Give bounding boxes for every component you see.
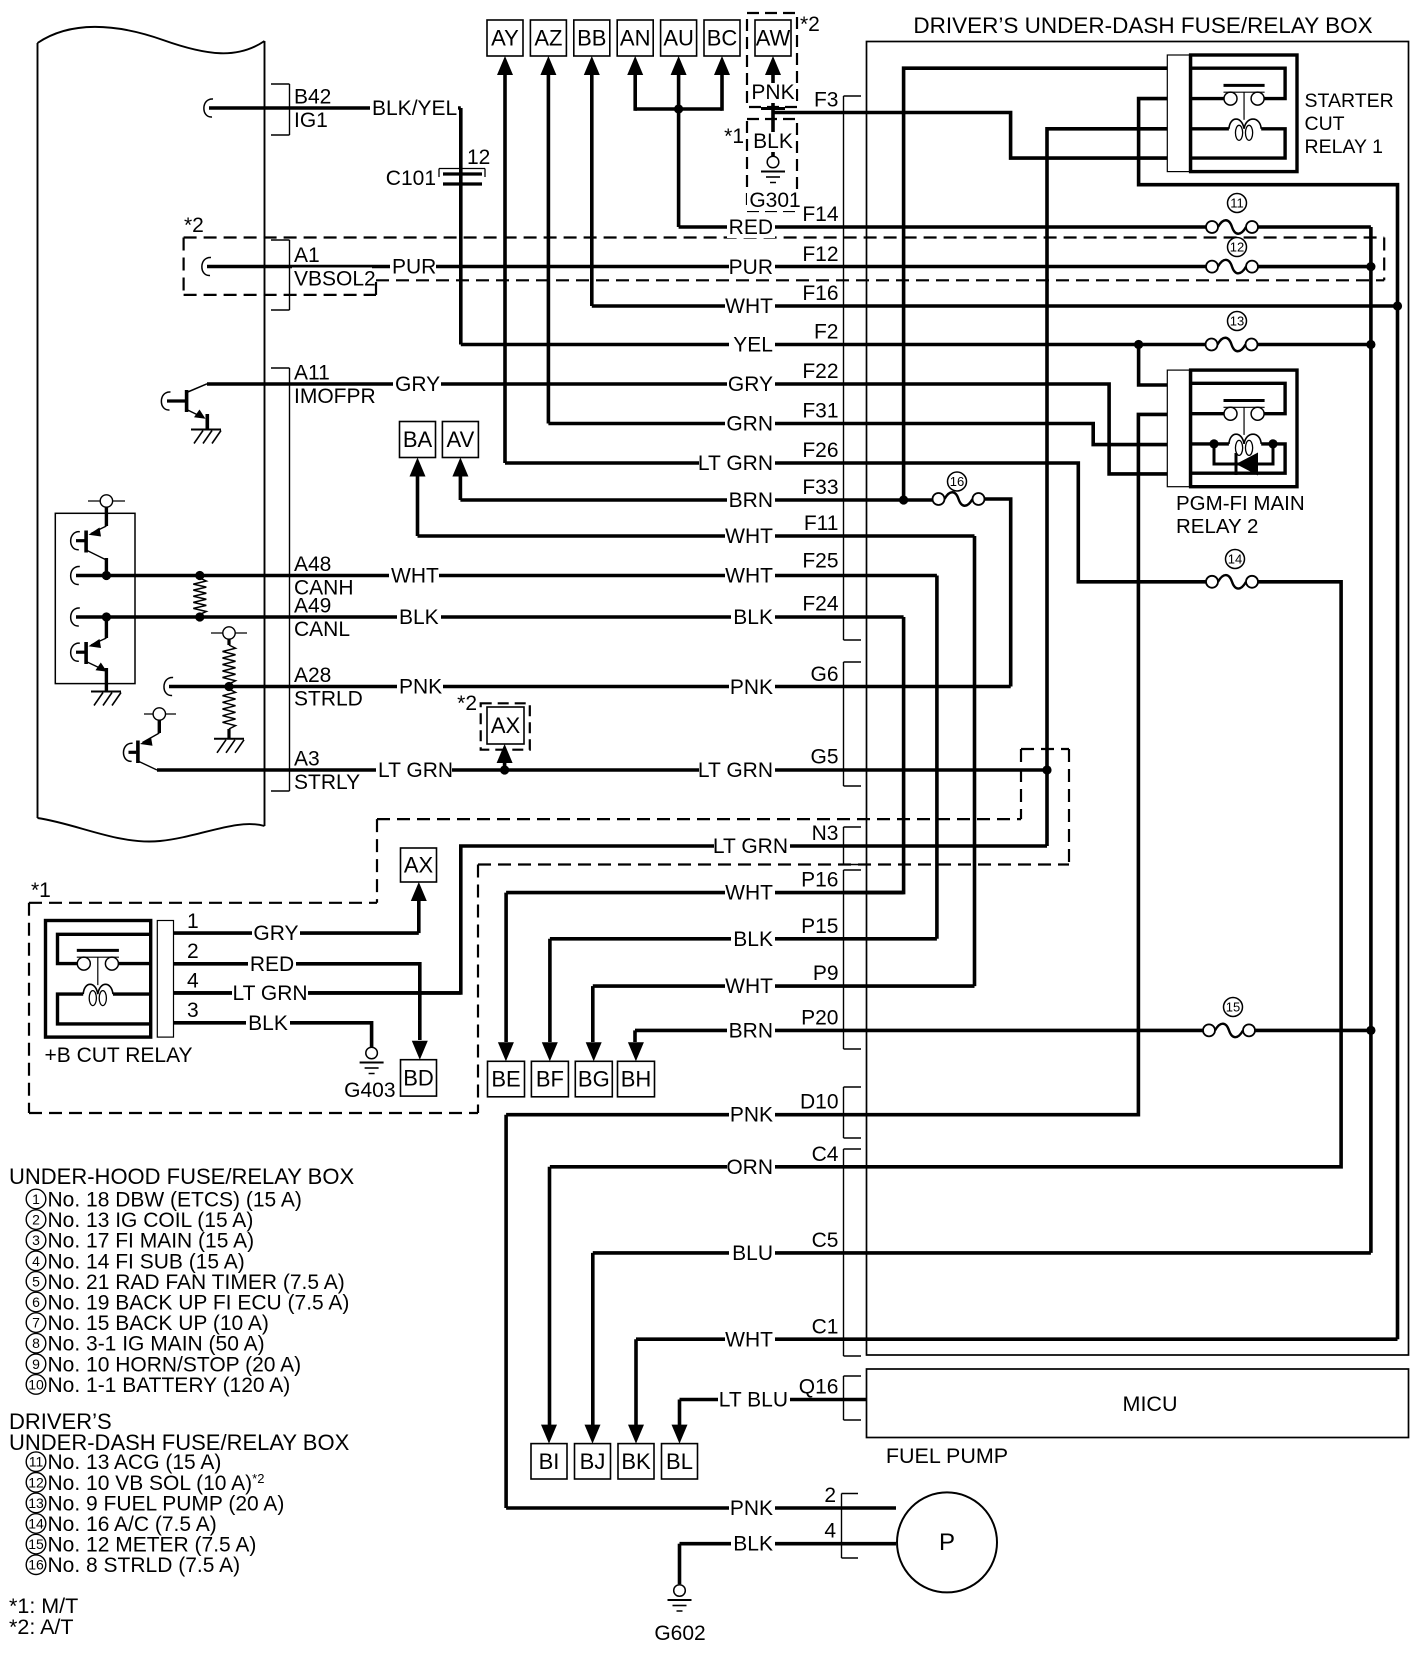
node STRLD-resistors — [224, 682, 233, 691]
svg-text:UNDER-HOOD FUSE/RELAY BOX: UNDER-HOOD FUSE/RELAY BOX — [9, 1164, 354, 1189]
svg-text:AZ: AZ — [534, 26, 562, 51]
connector AY — [487, 20, 523, 56]
fuel pump motor — [897, 1492, 997, 1592]
svg-text:VBSOL2: VBSOL2 — [294, 268, 376, 291]
connector BF — [531, 1061, 568, 1097]
svg-text:A28: A28 — [294, 664, 331, 687]
svg-text:No. 18 DBW (ETCS) (15 A): No. 18 DBW (ETCS) (15 A) — [48, 1189, 302, 1212]
bracket F connector — [844, 96, 862, 640]
svg-text:D10: D10 — [800, 1091, 839, 1114]
svg-text:CANL: CANL — [294, 618, 350, 641]
node fuse13-bus — [1366, 340, 1375, 349]
svg-text:PNK: PNK — [751, 81, 794, 104]
connector AZ — [530, 20, 566, 56]
svg-text:MICU: MICU — [1123, 1392, 1178, 1416]
svg-text:*2: A/T: *2: A/T — [9, 1615, 74, 1639]
wire BLK +B — [174, 1023, 372, 1047]
wire AY stem to F26 — [503, 75, 507, 463]
legend item 13 — [26, 1492, 284, 1515]
wire fuse15 out — [1255, 1029, 1371, 1033]
wire relay2 out to D10 PNK — [506, 414, 1191, 1114]
CAN transistor Q lower — [71, 617, 107, 691]
svg-text:AU: AU — [663, 26, 694, 51]
arrow into BE — [498, 1042, 514, 1061]
wire P9 WHT to BG — [593, 984, 975, 988]
node CANL-resistor — [195, 612, 204, 621]
svg-text:No. 10 VB SOL (10 A)*2: No. 10 VB SOL (10 A)*2 — [48, 1471, 265, 1495]
svg-text:GRN: GRN — [726, 413, 773, 436]
svg-text:16: 16 — [950, 474, 964, 489]
svg-text:11: 11 — [29, 1454, 44, 1470]
dashed *2 region around A1/VBSOL2 extending right — [184, 236, 1385, 238]
svg-text:12: 12 — [1230, 240, 1244, 255]
svg-text:3: 3 — [187, 999, 199, 1022]
svg-text:No. 16 A/C (7.5 A): No. 16 A/C (7.5 A) — [48, 1513, 217, 1536]
relay PGM-FI MAIN RELAY 2 — [1167, 370, 1297, 487]
legend item 12 — [26, 1471, 264, 1495]
svg-text:F31: F31 — [802, 400, 838, 423]
svg-text:GRY: GRY — [728, 373, 773, 396]
svg-text:No. 1-1 BATTERY (120 A): No. 1-1 BATTERY (120 A) — [48, 1374, 291, 1397]
connector BK — [618, 1444, 654, 1479]
svg-text:F33: F33 — [802, 476, 838, 499]
arrow into AX2 — [497, 744, 513, 763]
svg-text:15: 15 — [1226, 1000, 1240, 1015]
svg-text:RED: RED — [250, 953, 294, 976]
CAN transistor Q upper — [71, 526, 107, 576]
wire G5 to relay1 coil — [1047, 129, 1191, 846]
bracket fuel pump — [842, 1494, 859, 1559]
svg-text:7: 7 — [32, 1315, 40, 1331]
fuse 16 — [933, 472, 985, 506]
svg-text:F14: F14 — [802, 203, 839, 226]
svg-text:A3: A3 — [294, 748, 320, 771]
svg-text:BLK: BLK — [399, 606, 439, 629]
wire C101 vertical — [459, 108, 463, 345]
svg-text:11: 11 — [1230, 196, 1244, 211]
svg-text:No. 19 BACK UP FI ECU (7.5 A): No. 19 BACK UP FI ECU (7.5 A) — [48, 1292, 350, 1315]
svg-text:No. 10 HORN/STOP (20 A): No. 10 HORN/STOP (20 A) — [48, 1353, 302, 1376]
connector BG — [575, 1061, 612, 1097]
wire PNK to fuel pump pin 2 — [506, 1506, 896, 1510]
svg-text:13: 13 — [1230, 314, 1244, 329]
wire bridge F25-P15 — [935, 576, 939, 939]
svg-text:5: 5 — [32, 1273, 40, 1289]
svg-text:No. 14 FI SUB (15 A): No. 14 FI SUB (15 A) — [48, 1250, 245, 1273]
wire AV stem — [459, 476, 463, 500]
wire starter relay T1 feed from F33 — [904, 68, 1191, 500]
svg-text:RELAY 1: RELAY 1 — [1305, 136, 1383, 158]
svg-text:F2: F2 — [814, 321, 839, 344]
svg-text:LT GRN: LT GRN — [378, 759, 453, 782]
svg-text:2: 2 — [187, 940, 199, 963]
wire +B pin4 LT GRN (joins N3 riser) — [174, 991, 461, 995]
wire A49 CANL BLK to F24 — [71, 608, 80, 626]
svg-text:4: 4 — [187, 970, 199, 993]
node AN/AU/BC — [674, 104, 683, 113]
STRLY driver transistor — [144, 708, 176, 733]
arrow into AN — [627, 56, 643, 75]
arrow into AW — [765, 56, 781, 75]
wire AX2 stem — [503, 760, 507, 770]
svg-text:STRLD: STRLD — [294, 688, 363, 711]
wire bridge F24-P16 — [867, 617, 904, 893]
svg-text:STARTER: STARTER — [1305, 90, 1394, 112]
legend item 8 — [26, 1333, 264, 1356]
node CANH-resistor — [195, 571, 204, 580]
dashed box around AX (*2) near G5 — [481, 703, 530, 749]
svg-text:P16: P16 — [801, 869, 838, 892]
svg-text:BK: BK — [621, 1449, 651, 1474]
legend item 14 — [26, 1513, 217, 1536]
arrow into BA — [410, 458, 426, 477]
connector AU — [661, 20, 697, 56]
svg-text:G602: G602 — [654, 1622, 705, 1645]
wire BI stem — [548, 1167, 552, 1425]
svg-text:F22: F22 — [802, 360, 838, 383]
svg-text:IMOFPR: IMOFPR — [294, 385, 376, 408]
wire BH stem — [633, 1030, 637, 1042]
wire AX1 stem — [417, 901, 421, 933]
wire F33 BRN from AV to fuse 16 — [460, 498, 933, 502]
wire relay1 output WHT — [1139, 99, 1398, 1340]
dashed box around G5 junction — [1021, 748, 1069, 750]
svg-text:10: 10 — [28, 1376, 44, 1392]
svg-text:LT GRN: LT GRN — [232, 982, 307, 1005]
connector BI — [531, 1444, 567, 1479]
wire BL stem — [678, 1400, 682, 1426]
svg-text:C5: C5 — [812, 1229, 839, 1252]
svg-text:GRY: GRY — [395, 373, 440, 396]
svg-text:No. 12 METER (7.5 A): No. 12 METER (7.5 A) — [48, 1534, 257, 1557]
dashed region around N3 (*2) — [377, 818, 1021, 820]
svg-text:*1: *1 — [31, 879, 51, 902]
wire fuse12 out — [1258, 265, 1371, 269]
ground G403 — [360, 1047, 384, 1073]
legend item 9 — [26, 1353, 301, 1376]
svg-text:A48: A48 — [294, 553, 331, 576]
legend item 10 — [26, 1374, 290, 1397]
svg-text:*2: *2 — [800, 13, 820, 36]
wire GRY F22 — [207, 384, 1191, 474]
wire BC stem — [720, 75, 724, 111]
svg-text:LT GRN: LT GRN — [698, 452, 773, 475]
svg-text:BLK: BLK — [733, 606, 773, 629]
connector BD — [401, 1060, 437, 1096]
svg-text:AX: AX — [404, 853, 434, 878]
wire BF stem — [548, 939, 552, 1042]
ground (CAN box) — [91, 692, 121, 706]
M/T-A/T alternative junction bar — [761, 107, 785, 110]
wire BK stem — [634, 1339, 638, 1425]
supply circle above CAN box — [88, 495, 125, 526]
wire fuse13 out — [1258, 343, 1371, 347]
legend item 7 — [26, 1312, 269, 1335]
wire F11 WHT from BA — [418, 534, 975, 538]
node G5-AX — [500, 765, 509, 774]
svg-text:F3: F3 — [814, 89, 839, 112]
svg-text:BG: BG — [578, 1067, 610, 1092]
svg-text:WHT: WHT — [725, 882, 773, 905]
dashed box *1 around +B CUT RELAY — [29, 902, 377, 904]
ECM pin bracket A1 — [271, 240, 290, 310]
svg-text:16: 16 — [28, 1557, 44, 1573]
connector AV — [442, 422, 478, 458]
svg-text:DRIVER’S UNDER-DASH FUSE/RELAY: DRIVER’S UNDER-DASH FUSE/RELAY BOX — [913, 13, 1372, 38]
wire F16 WHT from BB — [592, 304, 1398, 308]
wire fuse16 to G6 — [979, 499, 1011, 687]
fuse 15 — [1203, 998, 1255, 1038]
ground G602 — [668, 1585, 692, 1611]
svg-text:AY: AY — [491, 26, 519, 51]
svg-text:LT BLU: LT BLU — [719, 1389, 788, 1412]
wire B42 IG1 BLK/YEL — [204, 99, 213, 117]
arrow into BG — [586, 1042, 602, 1061]
svg-text:PNK: PNK — [730, 1104, 773, 1127]
svg-text:F24: F24 — [802, 593, 839, 616]
wire Q16 LT BLU to BL — [680, 1398, 867, 1402]
connector BE — [488, 1061, 525, 1097]
svg-text:8: 8 — [32, 1335, 40, 1351]
svg-text:C4: C4 — [812, 1143, 839, 1166]
svg-text:G403: G403 — [344, 1079, 395, 1102]
ECM pin strip A11..A3 — [271, 368, 290, 791]
svg-text:C101: C101 — [386, 167, 436, 190]
arrow into AV — [452, 458, 468, 477]
ground (STRLD resistor) — [214, 739, 244, 753]
svg-text:GRY: GRY — [253, 922, 298, 945]
wire fuse13 to PGM-FI relay T1 — [1139, 345, 1191, 386]
legend item 2 — [26, 1209, 253, 1232]
svg-text:F11: F11 — [804, 512, 839, 535]
ground (IMOFPR emitter) — [191, 430, 221, 444]
wire fuse11 out — [1258, 225, 1371, 229]
wire GRN F31 — [548, 424, 1190, 445]
svg-text:WHT: WHT — [391, 565, 439, 588]
svg-text:AV: AV — [447, 427, 475, 452]
wire right bus (fuses 11/12/13/15 to C5) — [1369, 227, 1373, 1253]
wire A3 STRLY LT GRN to G5 — [157, 768, 1047, 772]
svg-text:BC: BC — [707, 26, 738, 51]
svg-text:A11: A11 — [294, 362, 330, 385]
svg-text:RED: RED — [729, 216, 773, 239]
svg-text:LT GRN: LT GRN — [713, 835, 788, 858]
wire F14 RED to fuse 11 — [679, 225, 1206, 229]
ECM/PCM torn-edge outline — [38, 27, 265, 53]
svg-text:WHT: WHT — [725, 1329, 773, 1352]
svg-text:6: 6 — [32, 1294, 40, 1310]
svg-text:2: 2 — [824, 1484, 836, 1507]
legend item 5 — [26, 1271, 345, 1294]
wire D10 to pump vertical — [504, 1115, 508, 1508]
svg-text:*1: *1 — [724, 125, 744, 148]
svg-text:P20: P20 — [801, 1007, 838, 1030]
svg-text:*2: *2 — [184, 214, 204, 237]
node F16-bus — [1393, 301, 1402, 310]
wire AU stem to F14 RED — [677, 75, 681, 227]
svg-text:A49: A49 — [294, 595, 331, 618]
MICU box — [867, 1369, 1409, 1438]
svg-text:PUR: PUR — [729, 256, 773, 279]
connector BB — [574, 20, 610, 56]
node G5-relaycoil — [1042, 765, 1051, 774]
svg-text:AW: AW — [756, 26, 791, 51]
svg-text:STRLY: STRLY — [294, 771, 360, 794]
svg-text:PNK: PNK — [730, 1497, 773, 1520]
svg-text:F26: F26 — [802, 439, 838, 462]
svg-text:LT GRN: LT GRN — [698, 759, 773, 782]
svg-text:15: 15 — [28, 1536, 44, 1552]
legend item 4 — [26, 1250, 245, 1273]
connector AX *1 — [401, 848, 437, 882]
dashed box around BLK/G301 (*1) — [747, 119, 797, 211]
svg-text:BD: BD — [403, 1065, 434, 1090]
wire +B pin1 GRY to AX — [174, 931, 419, 935]
wire P15 BLK to BF — [550, 937, 937, 941]
wire C5 BLU to BJ — [593, 1251, 1371, 1255]
svg-text:P9: P9 — [813, 962, 839, 985]
ground G301 — [761, 156, 785, 182]
svg-text:G5: G5 — [810, 746, 838, 769]
svg-text:No. 21 RAD FAN TIMER (7.5 A): No. 21 RAD FAN TIMER (7.5 A) — [48, 1271, 345, 1294]
legend item 15 — [26, 1534, 256, 1557]
wire P20 BRN to BH and fuse 15 — [635, 1029, 1203, 1033]
wire A48 CANH WHT to F25 — [71, 566, 80, 584]
svg-text:PNK: PNK — [730, 676, 773, 699]
STRLD pull-down resistor to ground — [223, 689, 236, 729]
arrow into BL — [672, 1425, 688, 1444]
wire F2 YEL from C101 to fuse 13 — [461, 343, 1206, 347]
arrow into BC — [714, 56, 730, 75]
bracket Q connector — [844, 1376, 862, 1420]
wire LT GRN F26 — [505, 463, 1206, 582]
legend item 6 — [26, 1292, 349, 1315]
node F2-relay2 — [1134, 340, 1143, 349]
svg-text:WHT: WHT — [725, 525, 773, 548]
svg-text:WHT: WHT — [725, 295, 773, 318]
svg-text:P: P — [939, 1529, 955, 1556]
node CANL-transistor — [102, 612, 111, 621]
svg-text:FUEL PUMP: FUEL PUMP — [886, 1444, 1008, 1468]
svg-text:BLK: BLK — [248, 1012, 288, 1035]
svg-text:Q16: Q16 — [799, 1376, 839, 1399]
wire C1 WHT to BK — [636, 1337, 1398, 1341]
svg-text:No. 3-1 IG MAIN (50 A): No. 3-1 IG MAIN (50 A) — [48, 1333, 265, 1356]
node fuse12-bus — [1366, 262, 1375, 271]
svg-text:9: 9 — [32, 1356, 40, 1372]
svg-text:N3: N3 — [812, 822, 839, 845]
wire AN-AU-BC bus — [635, 107, 722, 111]
svg-text:C1: C1 — [812, 1316, 839, 1339]
bracket N connector — [844, 827, 862, 865]
svg-text:+B CUT RELAY: +B CUT RELAY — [45, 1044, 193, 1067]
wire BE stem — [504, 893, 508, 1042]
arrow into AX1 — [411, 882, 427, 901]
wire AN stem — [633, 75, 637, 111]
arrow into AU — [671, 56, 687, 75]
wire F3 PNK — [773, 113, 1191, 159]
svg-text:IG1: IG1 — [294, 109, 328, 132]
transistor IMOFPR driver — [161, 384, 207, 429]
wire AW stem PNK — [771, 75, 775, 113]
svg-text:PNK: PNK — [399, 676, 442, 699]
svg-text:WHT: WHT — [725, 975, 773, 998]
wire BLK fuel pump pin 4 to G602 — [680, 1542, 897, 1546]
arrow into BH — [628, 1042, 644, 1061]
svg-text:BLK: BLK — [733, 1533, 773, 1556]
svg-text:12: 12 — [28, 1474, 44, 1490]
dashed box around AW (*2) — [747, 13, 797, 107]
arrow into AZ — [540, 56, 556, 75]
svg-text:BL: BL — [666, 1449, 693, 1474]
svg-text:B42: B42 — [294, 86, 331, 109]
wire RED +B — [174, 964, 420, 1040]
svg-text:PUR: PUR — [392, 256, 436, 279]
connector BA — [400, 422, 436, 458]
svg-text:BA: BA — [403, 427, 433, 452]
connector AX *2 — [487, 707, 524, 744]
wire BJ stem — [591, 1253, 595, 1425]
svg-text:WHT: WHT — [725, 565, 773, 588]
arrow into BI — [541, 1425, 557, 1444]
bracket G connector — [844, 662, 862, 786]
svg-text:F16: F16 — [802, 282, 838, 305]
bracket C connector — [844, 1149, 862, 1356]
svg-text:No. 8 STRLD (7.5 A): No. 8 STRLD (7.5 A) — [48, 1554, 241, 1577]
arrow into BD — [412, 1041, 428, 1060]
svg-text:BLU: BLU — [732, 1242, 773, 1265]
ECM pin bracket B42 — [271, 84, 290, 135]
svg-text:BLK: BLK — [733, 928, 773, 951]
connector BJ — [575, 1444, 611, 1479]
svg-text:14: 14 — [1228, 552, 1242, 567]
svg-text:BJ: BJ — [580, 1449, 606, 1474]
arrow into BB — [584, 56, 600, 75]
legend item 16 — [26, 1554, 240, 1577]
svg-text:BH: BH — [621, 1067, 652, 1092]
bracket D connector — [844, 1087, 862, 1138]
svg-text:RELAY 2: RELAY 2 — [1176, 515, 1258, 538]
svg-text:ORN: ORN — [726, 1156, 773, 1179]
STRLD pull-up resistor with supply — [211, 627, 247, 645]
svg-text:No. 9 FUEL PUMP (20 A): No. 9 FUEL PUMP (20 A) — [48, 1492, 285, 1515]
+B CUT RELAY outer box — [46, 921, 174, 1038]
fuse 11 — [1206, 194, 1258, 234]
resistor between CANH and CANL — [193, 578, 206, 615]
wire BB stem to F16 — [590, 75, 594, 306]
wire BA stem — [416, 476, 420, 536]
svg-text:BRN: BRN — [729, 1020, 773, 1043]
svg-text:14: 14 — [28, 1516, 44, 1532]
svg-text:G301: G301 — [749, 189, 800, 212]
svg-text:No. 15 BACK UP (10 A): No. 15 BACK UP (10 A) — [48, 1312, 269, 1335]
svg-text:BRN: BRN — [729, 489, 773, 512]
wire P16 WHT to BE — [506, 891, 903, 895]
svg-text:BF: BF — [536, 1067, 564, 1092]
svg-text:YEL: YEL — [733, 334, 773, 357]
svg-text:P15: P15 — [801, 915, 838, 938]
connector BL — [662, 1444, 698, 1479]
CAN driver transistor pair box — [55, 513, 135, 683]
node CANH-transistor — [102, 571, 111, 580]
svg-text:G6: G6 — [810, 663, 838, 686]
relay STARTER CUT RELAY 1 — [1167, 55, 1297, 172]
svg-text:F12: F12 — [802, 243, 838, 266]
connector AW — [755, 20, 791, 56]
svg-text:4: 4 — [824, 1520, 836, 1543]
wire AZ stem to F31 — [547, 75, 551, 424]
svg-text:BE: BE — [491, 1067, 520, 1092]
